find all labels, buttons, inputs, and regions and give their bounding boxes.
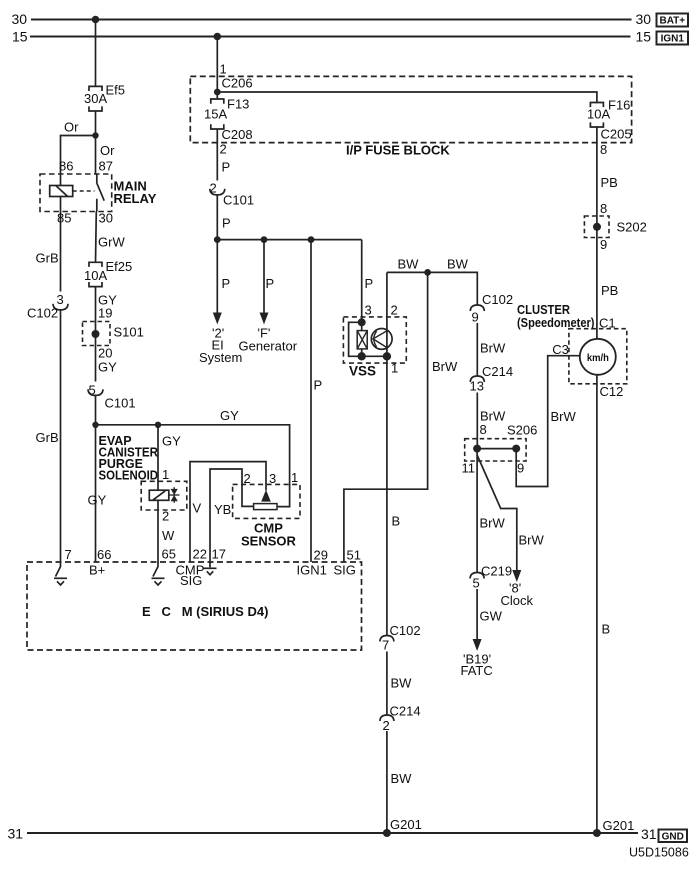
tag BAT+ (657, 14, 689, 27)
wire from bus30 to fuse Ef5 (95, 20, 97, 87)
ECM pin 65 ground (153, 562, 158, 577)
connector C214 pin 2 (380, 715, 394, 721)
svg-text:Generator: Generator (239, 339, 298, 354)
svg-text:2: 2 (244, 471, 251, 486)
svg-text:GrB: GrB (36, 430, 59, 445)
svg-text:P: P (222, 276, 231, 291)
ECM box (27, 562, 362, 650)
svg-text:85: 85 (57, 211, 71, 226)
svg-text:65: 65 (162, 547, 176, 562)
wire Or below Ef5 (95, 111, 97, 174)
svg-text:W: W (162, 528, 175, 543)
svg-text:S101: S101 (114, 325, 144, 340)
relay coil-switch link (73, 190, 95, 192)
VSS rotor circle (371, 329, 392, 350)
wire GrW relay 30 down (95, 212, 98, 263)
svg-text:SIG: SIG (180, 573, 202, 588)
wire from bus15 to fuse F13 (216, 37, 218, 100)
node G201 left (383, 829, 391, 837)
wire W solenoid to ECM pin 65 (157, 500, 159, 562)
svg-text:31: 31 (641, 826, 657, 842)
fuse Ef5 30A (89, 86, 102, 111)
svg-text:15A: 15A (204, 107, 227, 122)
wire BrW from BW junction to ECM pin 51 (344, 272, 428, 562)
svg-text:RELAY: RELAY (114, 191, 157, 206)
wire GrB to ECM pin 7 (60, 310, 62, 562)
svg-text:GY: GY (162, 434, 181, 449)
node GY junction solenoid (155, 422, 161, 428)
svg-text:C219: C219 (481, 564, 512, 579)
node P rail left (214, 236, 221, 243)
svg-text:10A: 10A (587, 107, 610, 122)
svg-text:GY: GY (220, 408, 239, 423)
svg-text:IGN1: IGN1 (661, 34, 685, 45)
ECM pin 7 ground (56, 562, 61, 577)
svg-text:Ef25: Ef25 (106, 259, 133, 274)
svg-text:P: P (222, 160, 231, 175)
wire BW horizontal rail (387, 272, 477, 304)
svg-text:C3: C3 (552, 342, 569, 357)
wire P from F13 to C101 (216, 129, 218, 181)
svg-text:2: 2 (220, 142, 227, 157)
svg-text:22: 22 (193, 547, 207, 562)
svg-text:S202: S202 (617, 220, 647, 235)
svg-text:C205: C205 (601, 127, 632, 142)
connector C102 pin 9 (470, 305, 484, 311)
svg-text:30: 30 (99, 211, 113, 226)
svg-text:17: 17 (212, 547, 226, 562)
svg-text:66: 66 (97, 547, 111, 562)
wire inside fuse block to F16 (217, 92, 597, 103)
svg-text:10A: 10A (84, 268, 107, 283)
svg-text:PB: PB (601, 175, 618, 190)
svg-text:3: 3 (269, 471, 276, 486)
bus 30 (31, 19, 632, 21)
wire P to ECM pin 29 IGN1 (310, 240, 312, 562)
svg-text:87: 87 (99, 159, 113, 174)
svg-text:8: 8 (480, 422, 487, 437)
CMP resistor (254, 504, 277, 510)
bus 15 (30, 36, 631, 38)
fuse F16 10A (590, 103, 603, 128)
svg-text:GrW: GrW (98, 235, 125, 250)
wire Or to relay pin 86 (61, 136, 96, 186)
fuse Ef25 10A (89, 262, 102, 286)
svg-text:Ef5: Ef5 (106, 83, 126, 98)
svg-text:1: 1 (391, 361, 398, 376)
wire P to VSS pin 3 (361, 240, 363, 323)
svg-text:30: 30 (636, 11, 652, 27)
svg-text:15: 15 (636, 29, 652, 45)
svg-text:11: 11 (462, 461, 476, 476)
node GY junction main (92, 422, 98, 428)
node P rail mid (261, 236, 268, 243)
bus 31 (ground) (27, 832, 638, 834)
splice S101 (83, 322, 111, 346)
wire GY to EVAP junction (95, 395, 97, 562)
splice S206 box (465, 439, 526, 461)
VSS bypass loop (349, 322, 362, 356)
wire GY to solenoid (157, 425, 159, 490)
svg-text:2: 2 (162, 509, 169, 524)
wire GY to S101 (95, 287, 97, 382)
svg-text:P: P (222, 216, 231, 231)
svg-text:CLUSTER: CLUSTER (517, 303, 570, 317)
svg-text:PB: PB (601, 283, 618, 298)
node on bus 15 (214, 33, 222, 41)
svg-text:GrB: GrB (36, 251, 59, 266)
wire P to generator (263, 240, 265, 313)
CMP sensor element triangle (261, 490, 271, 502)
arrow to clock (512, 570, 521, 582)
VSS pin 3 node (358, 318, 366, 326)
VSS bottom rail (362, 355, 387, 357)
I/P fuse block box (190, 76, 631, 142)
svg-text:20: 20 (98, 346, 112, 361)
svg-text:86: 86 (59, 159, 73, 174)
svg-text:C208: C208 (222, 127, 253, 142)
svg-text:B: B (392, 514, 401, 529)
wire BrW C102-9 to C214-13 (476, 323, 478, 376)
svg-text:FATC: FATC (461, 663, 493, 678)
svg-text:GW: GW (480, 609, 503, 624)
svg-text:YB: YB (214, 502, 231, 517)
connector C102 pin 3 (53, 304, 68, 310)
svg-text:9: 9 (517, 461, 524, 476)
wire YB ECM pin 17 to CMP pin 2 (210, 469, 254, 562)
svg-text:C206: C206 (222, 76, 253, 91)
svg-text:GND: GND (662, 831, 684, 842)
svg-text:51: 51 (347, 548, 361, 563)
svg-text:5: 5 (89, 383, 96, 398)
wire P distribution rail (217, 239, 361, 241)
svg-text:C102: C102 (390, 623, 421, 638)
main relay box (40, 174, 112, 212)
svg-text:BrW: BrW (432, 359, 458, 374)
svg-text:BW: BW (447, 257, 469, 272)
arrow to generator (260, 313, 269, 325)
svg-text:Or: Or (100, 143, 115, 158)
svg-text:E C M (SIRIUS D4): E C M (SIRIUS D4) (142, 604, 268, 619)
svg-text:15: 15 (12, 29, 28, 45)
svg-text:19: 19 (98, 306, 112, 321)
svg-text:2: 2 (391, 303, 398, 318)
svg-text:Clock: Clock (501, 593, 534, 608)
svg-text:BrW: BrW (519, 533, 545, 548)
svg-text:1: 1 (220, 62, 227, 77)
EVAP canister purge solenoid box (141, 481, 187, 510)
relay switch (97, 174, 104, 212)
svg-text:C214: C214 (390, 704, 421, 719)
svg-text:SOLENOID: SOLENOID (99, 469, 159, 483)
svg-text:S206: S206 (507, 423, 537, 438)
svg-text:V: V (193, 501, 202, 516)
S206 link (477, 448, 516, 450)
svg-text:GY: GY (98, 360, 117, 375)
svg-text:30: 30 (12, 11, 28, 27)
svg-text:I/P FUSE BLOCK: I/P FUSE BLOCK (346, 143, 450, 158)
wire BW VSS pin 2 (386, 272, 388, 356)
svg-text:1: 1 (291, 470, 298, 485)
speedometer circle km/h (580, 339, 616, 375)
connector C214 pin 13 (470, 376, 484, 382)
svg-text:9: 9 (600, 237, 607, 252)
wire GrB coil bottom to C102 (60, 197, 62, 292)
node C206 junction (214, 89, 221, 96)
CMP sensor box (233, 484, 300, 518)
wire B from cluster C12 to G201 (596, 375, 598, 833)
svg-text:B+: B+ (89, 563, 105, 578)
wire BrW C214-13 to S206 (476, 393, 478, 449)
svg-text:BrW: BrW (480, 341, 506, 356)
svg-text:C102: C102 (27, 306, 58, 321)
svg-text:BW: BW (398, 257, 420, 272)
svg-text:3: 3 (365, 303, 372, 318)
node Or branch (92, 132, 98, 138)
svg-text:C102: C102 (482, 292, 513, 307)
svg-text:8: 8 (600, 201, 607, 216)
node on bus 30 (92, 16, 100, 24)
svg-text:31: 31 (8, 826, 24, 842)
svg-text:G201: G201 (603, 818, 635, 833)
svg-text:C214: C214 (482, 364, 513, 379)
svg-text:C101: C101 (223, 193, 254, 208)
node G201 right (593, 829, 601, 837)
wire BrW S206-11 to C219 (476, 449, 478, 573)
arrow to EI system (213, 313, 222, 325)
node P rail right (308, 236, 315, 243)
svg-text:SENSOR: SENSOR (241, 534, 297, 549)
wire C3 from speedometer to S206 pin 9 (516, 356, 580, 487)
svg-text:F13: F13 (227, 97, 249, 112)
svg-text:1: 1 (162, 467, 169, 482)
tag GND (659, 830, 688, 843)
svg-text:P: P (266, 276, 275, 291)
svg-text:B: B (602, 622, 611, 637)
wire PB from F16 through S202 to cluster C1 (596, 127, 598, 339)
svg-text:29: 29 (314, 548, 328, 563)
solenoid coil (149, 490, 169, 500)
svg-text:km/h: km/h (587, 352, 609, 364)
svg-text:BrW: BrW (551, 409, 577, 424)
svg-text:8: 8 (600, 142, 607, 157)
VSS sensor element (361, 322, 363, 356)
svg-text:2: 2 (383, 718, 390, 733)
svg-text:C101: C101 (105, 396, 136, 411)
svg-text:SIG: SIG (334, 563, 356, 578)
wire GY horizontal to CMP sensor (96, 425, 290, 507)
svg-text:2: 2 (210, 181, 217, 196)
svg-text:System: System (199, 350, 242, 365)
svg-text:30A: 30A (84, 91, 107, 106)
svg-text:P: P (314, 378, 323, 393)
tag IGN1 (657, 32, 689, 45)
cluster box (569, 329, 627, 384)
svg-text:U5D15086: U5D15086 (629, 846, 689, 860)
svg-text:13: 13 (470, 379, 484, 394)
arrow to B19 FATC (473, 639, 482, 651)
svg-text:BW: BW (391, 771, 413, 786)
svg-text:(Speedometer): (Speedometer) (517, 316, 595, 330)
wire GW to FATC (476, 589, 478, 640)
svg-text:BAT+: BAT+ (659, 16, 685, 27)
svg-text:GY: GY (88, 493, 107, 508)
svg-text:G201: G201 (390, 817, 422, 832)
wire V ECM pin 22 to CMP pin 3 (190, 462, 266, 562)
svg-text:C12: C12 (600, 384, 624, 399)
svg-text:VSS: VSS (349, 364, 376, 379)
svg-text:BW: BW (391, 676, 413, 691)
connector C101 pin 5 (88, 389, 103, 395)
svg-text:IGN1: IGN1 (297, 563, 327, 578)
svg-text:P: P (365, 276, 374, 291)
connector C219 pin 5 (470, 573, 484, 579)
svg-text:5: 5 (473, 576, 480, 591)
svg-text:Or: Or (64, 120, 79, 135)
connector C101 pin 2 (210, 189, 225, 195)
wire B VSS pin 1 down to G201 (386, 356, 388, 833)
wire P to EI system (216, 240, 218, 313)
fuse F13 15A (211, 99, 224, 129)
svg-text:9: 9 (472, 310, 479, 325)
svg-text:BrW: BrW (480, 516, 506, 531)
relay coil (50, 186, 73, 197)
VSS box (343, 317, 406, 363)
svg-text:C1: C1 (599, 316, 616, 331)
node BW junction (424, 269, 431, 276)
connector C102 pin 7 (380, 636, 394, 642)
solenoid valve symbol (169, 494, 180, 496)
splice S202 (584, 216, 609, 238)
ECM pin 17 ground (209, 562, 211, 567)
svg-text:7: 7 (65, 547, 72, 562)
svg-text:7: 7 (382, 638, 389, 653)
svg-text:F16: F16 (608, 98, 630, 113)
wire BrW S206-11 diagonal to clock (477, 455, 517, 571)
wire P to distribution node (216, 195, 218, 240)
